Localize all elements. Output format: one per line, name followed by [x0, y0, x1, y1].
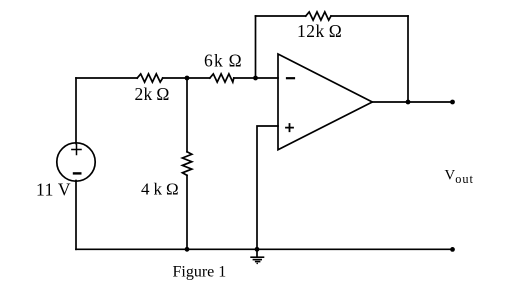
node ground junction — [255, 247, 260, 252]
svg-text:Figure 1: Figure 1 — [173, 264, 227, 281]
wire bottom horizontal — [76, 248, 453, 250]
node inverting input — [253, 76, 258, 81]
resistor R2 6kOhm — [210, 74, 234, 82]
ground — [251, 249, 263, 264]
node bottom right terminal — [450, 247, 455, 252]
svg-text:12k Ω: 12k Ω — [297, 21, 342, 41]
node feedback/output junction — [406, 100, 411, 105]
svg-text:6k Ω: 6k Ω — [204, 51, 243, 71]
node 4k bottom junction — [185, 247, 190, 252]
op-amp U1 — [278, 54, 372, 150]
wire middle horizontal right to op-amp minus input — [234, 77, 278, 79]
svg-text:Vout: Vout — [445, 168, 474, 186]
wire middle horizontal left — [76, 77, 137, 79]
wire left vertical top — [75, 78, 77, 144]
resistor R4 4kOhm — [182, 152, 191, 176]
wire noninverting input — [257, 126, 278, 249]
svg-text:4 k Ω: 4 k Ω — [141, 180, 179, 199]
wire feedback left vertical — [255, 16, 257, 78]
svg-text:2k Ω: 2k Ω — [135, 84, 170, 104]
wire output — [372, 101, 452, 103]
wire left vertical bottom — [75, 181, 77, 250]
wire middle horizontal mid — [163, 77, 210, 79]
resistor R3 12kOhm — [306, 12, 331, 20]
svg-text:11 V: 11 V — [36, 180, 71, 200]
node junction 2k/4k — [185, 76, 190, 81]
wire 4k branch bottom — [186, 175, 188, 249]
wire feedback top right — [331, 15, 408, 17]
node output terminal — [450, 100, 455, 105]
wire feedback right vertical — [407, 16, 409, 102]
wire 4k branch top — [186, 78, 188, 152]
wire feedback top left — [256, 15, 306, 17]
voltage source VS 11V — [57, 143, 95, 181]
resistor R1 2kOhm — [137, 74, 163, 82]
